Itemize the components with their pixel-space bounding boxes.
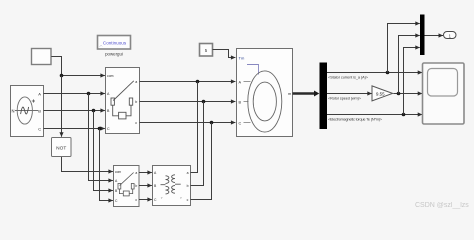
svg-text:b: b bbox=[135, 100, 137, 104]
scope bbox=[423, 63, 465, 124]
node step/NOT junction bbox=[60, 74, 64, 78]
wire NOT output to breaker2 com bbox=[62, 157, 113, 172]
svg-text:powergui: powergui bbox=[105, 52, 123, 57]
node transformer a junction bbox=[196, 80, 200, 84]
step block (breaker timer) bbox=[32, 49, 52, 65]
wire gain to scope 2 bbox=[394, 93, 423, 95]
svg-text:C: C bbox=[38, 126, 41, 131]
node branch 2 bbox=[397, 92, 401, 96]
svg-text:Tm: Tm bbox=[239, 55, 245, 60]
svg-text:A: A bbox=[38, 91, 41, 96]
node tap C bbox=[98, 127, 102, 131]
wire stator current to scope 1 bbox=[327, 72, 422, 74]
svg-text:c: c bbox=[187, 198, 189, 202]
svg-text:a: a bbox=[135, 171, 137, 175]
svg-text:<Rotor speed (wm)>: <Rotor speed (wm)> bbox=[328, 97, 362, 101]
svg-text:com: com bbox=[107, 74, 114, 78]
wire constant to machine Tm bbox=[213, 50, 236, 58]
svg-text:NOT: NOT bbox=[56, 146, 66, 152]
node tap B bbox=[92, 109, 96, 113]
wire branch3 up to mux input 3 bbox=[404, 48, 420, 115]
wire rotor speed to gain bbox=[327, 93, 372, 95]
svg-text:Y: Y bbox=[180, 196, 182, 200]
svg-text:m: m bbox=[288, 92, 291, 96]
svg-text:C: C bbox=[239, 121, 242, 125]
svg-text:Continuous: Continuous bbox=[103, 41, 127, 46]
three-phase transformer bbox=[153, 166, 191, 206]
wire breaker1 b to machine B bbox=[140, 101, 236, 103]
bus selector bbox=[320, 63, 328, 130]
wire step output to breaker1 com bbox=[51, 57, 105, 76]
wire breaker2 b to transformer B bbox=[139, 185, 152, 187]
node branch 1 bbox=[386, 71, 390, 75]
wire mux to outport bbox=[425, 35, 444, 37]
wire branch1 up to mux input 1 bbox=[388, 24, 420, 73]
mux bbox=[420, 15, 425, 56]
asynchronous machine bbox=[237, 49, 293, 137]
constant block Tm bbox=[200, 44, 213, 57]
svg-text:b: b bbox=[187, 184, 189, 188]
wire torque to scope 3 bbox=[327, 114, 422, 116]
wire transformer a up to node a bbox=[191, 82, 198, 173]
svg-text:9.55: 9.55 bbox=[376, 91, 385, 96]
wire tap C down to breaker2 C bbox=[100, 129, 113, 201]
svg-text:C: C bbox=[107, 127, 110, 131]
wire branch2 up to mux input 2 bbox=[399, 36, 420, 94]
node transformer c junction bbox=[210, 121, 214, 125]
node transformer b junction bbox=[202, 100, 206, 104]
svg-text:c: c bbox=[135, 198, 137, 202]
NOT logic block bbox=[52, 138, 72, 157]
wire breaker1 c to machine C bbox=[140, 122, 236, 124]
wire transformer c up to node c bbox=[191, 123, 212, 200]
svg-text:b: b bbox=[135, 184, 137, 188]
svg-text:Y: Y bbox=[161, 196, 163, 200]
wire breaker2 a to transformer A bbox=[139, 172, 152, 174]
wire tap A down to breaker2 A bbox=[89, 94, 113, 181]
svg-text:<Stator current is_a (A)>: <Stator current is_a (A)> bbox=[328, 76, 369, 80]
wire junction down to NOT input bbox=[61, 76, 63, 137]
AC voltage source block bbox=[11, 86, 44, 137]
three-phase breaker 1 bbox=[106, 68, 140, 134]
svg-text:N: N bbox=[12, 109, 15, 114]
node branch 3 bbox=[402, 113, 406, 117]
wire transformer b up to node b bbox=[191, 102, 204, 186]
svg-text:CSDN @szl__lzs: CSDN @szl__lzs bbox=[415, 202, 469, 209]
powergui block bbox=[98, 36, 131, 57]
wire source C to breaker1 C bbox=[44, 128, 105, 130]
wire tap B down to breaker2 B bbox=[94, 111, 113, 191]
wire breaker1 a to machine A bbox=[140, 81, 236, 83]
svg-text:a: a bbox=[135, 80, 137, 84]
node tap A bbox=[87, 92, 91, 96]
wire source B to breaker1 B bbox=[44, 110, 105, 112]
svg-text:c: c bbox=[135, 121, 137, 125]
svg-text:B: B bbox=[38, 109, 41, 114]
wire machine m to bus selector (bus) bbox=[293, 92, 317, 95]
three-phase breaker 2 bbox=[114, 166, 140, 207]
svg-text:a: a bbox=[187, 171, 189, 175]
svg-text:com: com bbox=[115, 170, 121, 174]
gain 9.55 bbox=[372, 86, 393, 101]
wire source A to breaker1 A bbox=[44, 93, 105, 95]
wire breaker2 c to transformer C bbox=[139, 199, 152, 201]
svg-text:<Electromagnetic torque Te (N*: <Electromagnetic torque Te (N*m)> bbox=[328, 118, 383, 122]
outport 1 bbox=[444, 32, 457, 39]
